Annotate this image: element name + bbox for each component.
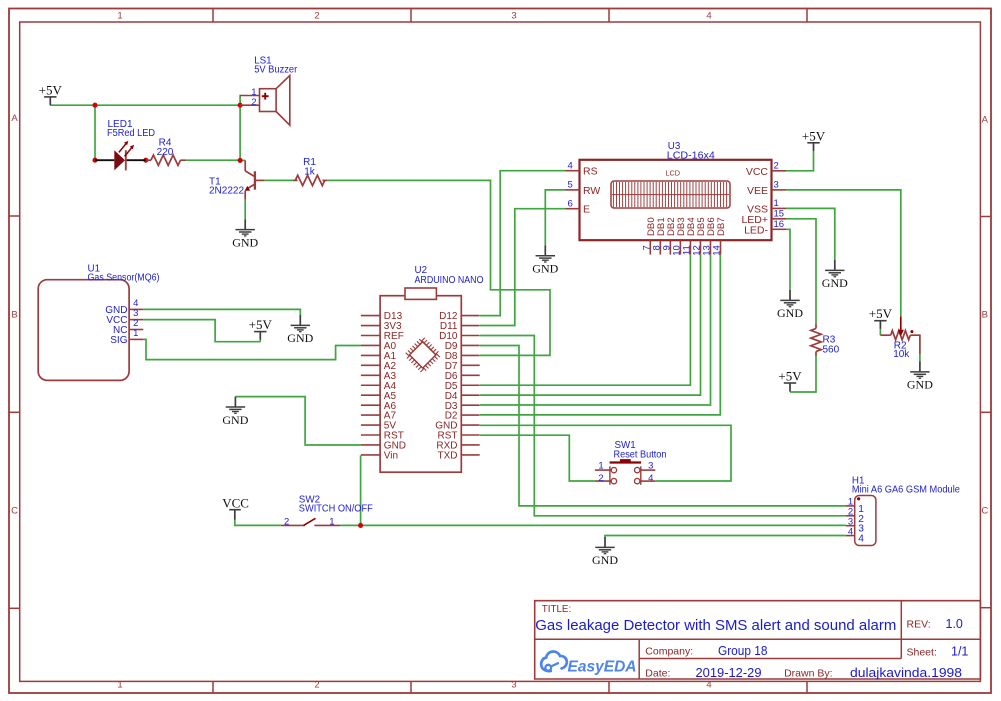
svg-text:GND: GND (232, 235, 258, 249)
U2 right pin D4 (445, 391, 480, 402)
svg-text:3: 3 (774, 180, 779, 191)
wire +5V rail top (50, 104, 240, 106)
svg-text:Gas Sensor(MQ6): Gas Sensor(MQ6) (88, 273, 160, 284)
frame column ticks bottom (213, 681, 807, 693)
svg-text:A: A (982, 115, 989, 126)
svg-text:Sheet:: Sheet: (907, 647, 937, 659)
wire VCC flag to SW2 pin2 (235, 519, 281, 526)
wire Arduino D12 to LCD RS (480, 171, 566, 316)
svg-text:6: 6 (568, 199, 573, 210)
U2 left pin A3 (361, 371, 397, 382)
svg-text:Reset Button: Reset Button (614, 449, 667, 460)
U2 left pin A1 (361, 351, 397, 362)
LED D1 black lead right (126, 159, 146, 161)
label R3 (823, 335, 840, 356)
svg-text:14: 14 (712, 245, 723, 256)
U3 bottom pin DB4 (681, 217, 697, 255)
U2 right pin RST (438, 431, 480, 442)
svg-text:1/1: 1/1 (951, 645, 968, 659)
svg-text:GND: GND (287, 331, 313, 345)
frame row ticks right (980, 217, 991, 608)
U3 left pin E (566, 199, 591, 216)
svg-text:3: 3 (511, 679, 516, 690)
svg-text:+5V: +5V (869, 306, 893, 321)
wire U1 GND pin to ground (143, 309, 300, 315)
svg-text:A: A (11, 113, 18, 124)
wire R1 to Arduino D8 (327, 180, 550, 355)
VCC power flag at SW2 (222, 496, 249, 520)
label U3 (667, 141, 716, 161)
wire Arduino D10 to GSM pin2 (480, 336, 846, 516)
svg-text:GND: GND (532, 262, 558, 276)
U3 right pin VSS (747, 198, 786, 215)
U1 pin SIG (110, 328, 143, 346)
wire LCD RW to ground (545, 190, 565, 245)
svg-text:C: C (11, 506, 18, 517)
svg-text:2: 2 (314, 11, 319, 22)
svg-text:1: 1 (133, 328, 138, 339)
U2 left pin A7 (361, 411, 397, 422)
wire +5V rail to LED anode (94, 105, 96, 160)
wire R3 to +5V (790, 356, 816, 392)
svg-text:3: 3 (648, 460, 653, 471)
U2 right pin D6 (445, 371, 480, 382)
svg-text:REV:: REV: (907, 619, 931, 631)
svg-text:DB7: DB7 (716, 217, 727, 236)
svg-text:Group 18: Group 18 (718, 644, 768, 658)
U2 left pin A5 (361, 391, 397, 402)
U2 right pin D10 (439, 331, 480, 342)
U2 microcontroller chip glyph (407, 339, 439, 371)
junction Vin / SW2 / GSM net (358, 523, 363, 528)
U1 pin VCC (106, 308, 143, 326)
U3 bottom pin DB0 (641, 217, 657, 254)
U2 left pin RST (361, 431, 404, 442)
ground at R2 (907, 362, 933, 392)
svg-text:VEE: VEE (747, 185, 768, 197)
svg-text:SIG: SIG (110, 335, 127, 346)
svg-text:2N2222: 2N2222 (209, 186, 244, 197)
wire U1 VCC pin to +5V (143, 320, 260, 342)
svg-text:ARDUINO NANO: ARDUINO NANO (415, 275, 484, 286)
potentiometer R2 (880, 316, 920, 354)
wire transistor base to R1 (264, 179, 293, 181)
LED D1 black lead left (95, 159, 114, 161)
U3 right pin LED- (744, 219, 786, 236)
wire LCD DB6 to Arduino D3 (480, 255, 711, 405)
svg-text:B: B (982, 310, 988, 321)
svg-text:B: B (11, 310, 17, 321)
svg-text:Company:: Company: (645, 646, 693, 658)
svg-text:4: 4 (648, 473, 653, 484)
U2 right pin D3 (445, 401, 480, 412)
U2 right pin RXD (436, 441, 479, 452)
label T1 (209, 176, 244, 196)
wire junction to transistor collector (240, 159, 245, 161)
U3 right pin LED+ (741, 209, 786, 226)
svg-text:GND: GND (222, 413, 248, 427)
wire U1 SIG to Arduino A0 (143, 339, 361, 359)
svg-text:1: 1 (117, 11, 122, 22)
svg-text:Gas leakage Detector with SMS: Gas leakage Detector with SMS alert and … (535, 617, 896, 634)
U3 bottom pin DB1 (651, 217, 667, 254)
junction collector node (238, 158, 243, 163)
wire LCD DB5 to Arduino D4 (480, 255, 701, 396)
svg-text:GND: GND (822, 276, 848, 290)
svg-text:2: 2 (314, 679, 319, 690)
buzzer LS1 (240, 76, 290, 126)
svg-text:VCC: VCC (746, 166, 769, 178)
U2 left pin GND (361, 441, 406, 452)
U2 right pin D2 (445, 411, 480, 422)
svg-text:1: 1 (117, 679, 122, 690)
svg-text:220: 220 (157, 147, 174, 158)
frame row labels right (981, 115, 988, 517)
U2 left pin D13 (361, 311, 403, 322)
svg-text:TXD: TXD (438, 451, 458, 462)
svg-text:1: 1 (774, 198, 779, 209)
pin labels SW1 (598, 460, 653, 484)
svg-text:3: 3 (511, 11, 516, 22)
svg-text:1.0: 1.0 (946, 617, 963, 631)
U3 left pin RS (566, 161, 598, 178)
svg-text:10k: 10k (893, 349, 910, 360)
H1 pin 1 (846, 497, 864, 515)
svg-text:C: C (981, 506, 988, 517)
junction +5V/LED (92, 103, 97, 108)
wire LCD LED- to ground (786, 229, 790, 290)
wire transistor emitter to ground (244, 200, 246, 219)
wire Arduino GND right to SW1 pin4 (480, 425, 731, 481)
wire LCD DB4 to Arduino D5 (480, 255, 690, 386)
U2 left pin A0 (361, 341, 397, 352)
frame column labels top (117, 11, 711, 22)
svg-text:GND: GND (907, 378, 933, 392)
U2 right pin D11 (440, 321, 480, 332)
label U2 (415, 265, 484, 286)
wire Arduino RST to SW1 pin2 (480, 435, 595, 481)
svg-text:1k: 1k (304, 167, 316, 178)
svg-text:2: 2 (284, 516, 289, 527)
wire Arduino Vin to switch net (360, 455, 362, 525)
junction LED cathode / R4 (143, 158, 148, 163)
wire +5V flag stub to R3 net (789, 390, 791, 393)
LCD U3 body (580, 160, 772, 240)
U1 pin GND (105, 298, 143, 316)
ground at LCD VSS (822, 260, 848, 290)
svg-text:VCC: VCC (222, 496, 249, 511)
wire LCD VCC to +5V (786, 151, 814, 171)
U3 bottom pin DB3 (671, 217, 687, 255)
ground at LCD RW (532, 245, 558, 275)
wire +5V flag stub to U1 VCC net (259, 340, 261, 342)
resistor R3 (811, 324, 821, 356)
junction LED anode (92, 158, 97, 163)
U2 left pin REF (361, 331, 404, 342)
svg-text:4: 4 (858, 534, 864, 545)
+5V power flag at LCD VCC (802, 128, 826, 151)
wire Arduino D9 to GSM pin1 (480, 346, 846, 506)
wire Arduino D11 to LCD E (480, 209, 566, 326)
svg-text:Mini A6 GA6 GSM Module: Mini A6 GA6 GSM Module (852, 485, 961, 496)
resistor R1 (293, 175, 327, 185)
H1 pin 4 (846, 526, 864, 544)
svg-text:+5V: +5V (778, 369, 802, 384)
ground at LCD LED- (777, 290, 803, 320)
pin labels SW2 (284, 516, 335, 527)
U3 bottom pin DB6 (701, 217, 717, 255)
svg-text:LCD-16x4: LCD-16x4 (667, 150, 716, 161)
wire LCD DB7 to Arduino D2 (480, 255, 720, 415)
U2 left pin A2 (361, 361, 397, 372)
svg-text:Drawn By:: Drawn By: (784, 668, 832, 680)
svg-text:2: 2 (598, 473, 603, 484)
svg-text:RS: RS (583, 166, 598, 178)
LED LED1 (114, 141, 134, 171)
ground at transistor emitter (232, 219, 258, 249)
+5V power flag top left (39, 82, 63, 105)
U2 left pin A4 (361, 381, 397, 392)
U2 right pin TXD (438, 451, 480, 462)
label LS1 (254, 56, 298, 76)
title block table (535, 601, 981, 679)
frame column ticks top (213, 9, 807, 23)
U3 bottom pin DB7 (712, 217, 728, 255)
U2 left pin A6 (361, 401, 397, 412)
wire LCD VSS to ground (786, 208, 835, 260)
wire LCD VEE to R2 wiper (786, 190, 901, 317)
U3 right pin VCC (746, 161, 786, 178)
U2 right pin D8 (445, 351, 480, 362)
U2 left pin 3V3 (361, 321, 402, 332)
gas sensor U1 body (38, 280, 129, 381)
wire SW2 pin1 to GSM pin3 net (340, 524, 846, 526)
svg-text:4: 4 (706, 11, 711, 22)
svg-text:16: 16 (774, 219, 785, 230)
LCD display glyph (611, 181, 730, 208)
svg-text:+5V: +5V (39, 82, 63, 97)
U2 right pin D12 (439, 311, 480, 322)
label LED1 (107, 119, 155, 139)
svg-text:4: 4 (568, 161, 573, 172)
frame row labels left (11, 113, 18, 517)
U3 bottom pin DB5 (691, 217, 707, 255)
ground at GSM pin4 (592, 537, 618, 567)
svg-text:2: 2 (774, 161, 779, 172)
GSM module H1 body (855, 496, 876, 546)
U2 right pin D5 (445, 381, 480, 392)
label SW2 (299, 494, 373, 514)
ground at Arduino GND left (222, 397, 248, 427)
wire R2 right to ground (919, 354, 921, 362)
svg-text:1: 1 (329, 516, 334, 527)
svg-text:5: 5 (568, 180, 573, 191)
svg-text:dulajkavinda.1998: dulajkavinda.1998 (850, 666, 962, 680)
switch SW2 (281, 518, 340, 525)
svg-text:5V Buzzer: 5V Buzzer (254, 65, 298, 76)
label R2 (893, 340, 910, 360)
junction +5V/buzzer (238, 103, 243, 108)
wire ground to Arduino GND left (235, 397, 361, 445)
svg-text:1: 1 (598, 460, 603, 471)
frame row ticks left (9, 216, 20, 608)
U1 pin NC (113, 318, 143, 336)
wire LCD LED+ to R3 (786, 219, 816, 324)
transistor T1 (245, 160, 265, 199)
U3 bottom pin DB2 (661, 217, 677, 254)
resistor R4 (146, 155, 186, 165)
push button SW1 (595, 459, 655, 485)
svg-text:560: 560 (823, 344, 840, 355)
label SW1 (614, 440, 667, 460)
wire buzzer pin1 to collector junction (239, 95, 241, 161)
H1 pin 2 (846, 507, 864, 525)
svg-text:2019-12-29: 2019-12-29 (696, 666, 762, 680)
frame column labels bottom (117, 679, 711, 690)
U3 left pin RW (566, 180, 601, 197)
svg-text:RW: RW (583, 185, 600, 197)
wire GSM pin4 to ground (605, 536, 846, 538)
wire +5V to R2 left (879, 329, 881, 335)
U2 right pin GND (435, 421, 479, 432)
svg-text:+5V: +5V (249, 317, 273, 332)
label U1 (88, 264, 160, 284)
H1 pin 3 (846, 517, 864, 535)
svg-text:15: 15 (774, 209, 785, 220)
label R1 (303, 157, 316, 178)
svg-text:GND: GND (592, 553, 618, 567)
svg-text:LCD: LCD (665, 168, 680, 177)
svg-text:4: 4 (848, 526, 853, 537)
ground at gas sensor (287, 315, 313, 345)
svg-text:+5V: +5V (802, 128, 826, 143)
U2 right pin D7 (445, 361, 480, 372)
svg-text:Date:: Date: (645, 668, 670, 680)
U3 right pin VEE (747, 180, 786, 197)
svg-text:2: 2 (251, 97, 256, 108)
Arduino Nano U2 body (380, 288, 461, 472)
svg-text:GND: GND (777, 306, 803, 320)
svg-text:E: E (583, 204, 590, 216)
svg-text:EasyEDA: EasyEDA (568, 659, 637, 676)
svg-text:TITLE:: TITLE: (542, 604, 571, 615)
+5V power flag at R3 (778, 369, 802, 392)
+5V power flag at gas sensor (249, 317, 273, 340)
svg-text:SWITCH ON/OFF: SWITCH ON/OFF (299, 504, 373, 515)
U2 left pin 5V (361, 421, 396, 432)
wire R4 to collector junction (186, 159, 241, 161)
U2 right pin D9 (445, 341, 480, 352)
label R4 (157, 138, 174, 159)
+5V power flag at R2 (869, 306, 893, 329)
EasyEDA logo (541, 652, 636, 676)
svg-text:F5Red LED: F5Red LED (107, 128, 155, 139)
U2 left pin Vin (361, 451, 398, 462)
svg-text:LED-: LED- (744, 224, 768, 236)
label H1 (852, 476, 961, 496)
svg-text:Vin: Vin (384, 451, 398, 462)
svg-text:4: 4 (706, 679, 711, 690)
